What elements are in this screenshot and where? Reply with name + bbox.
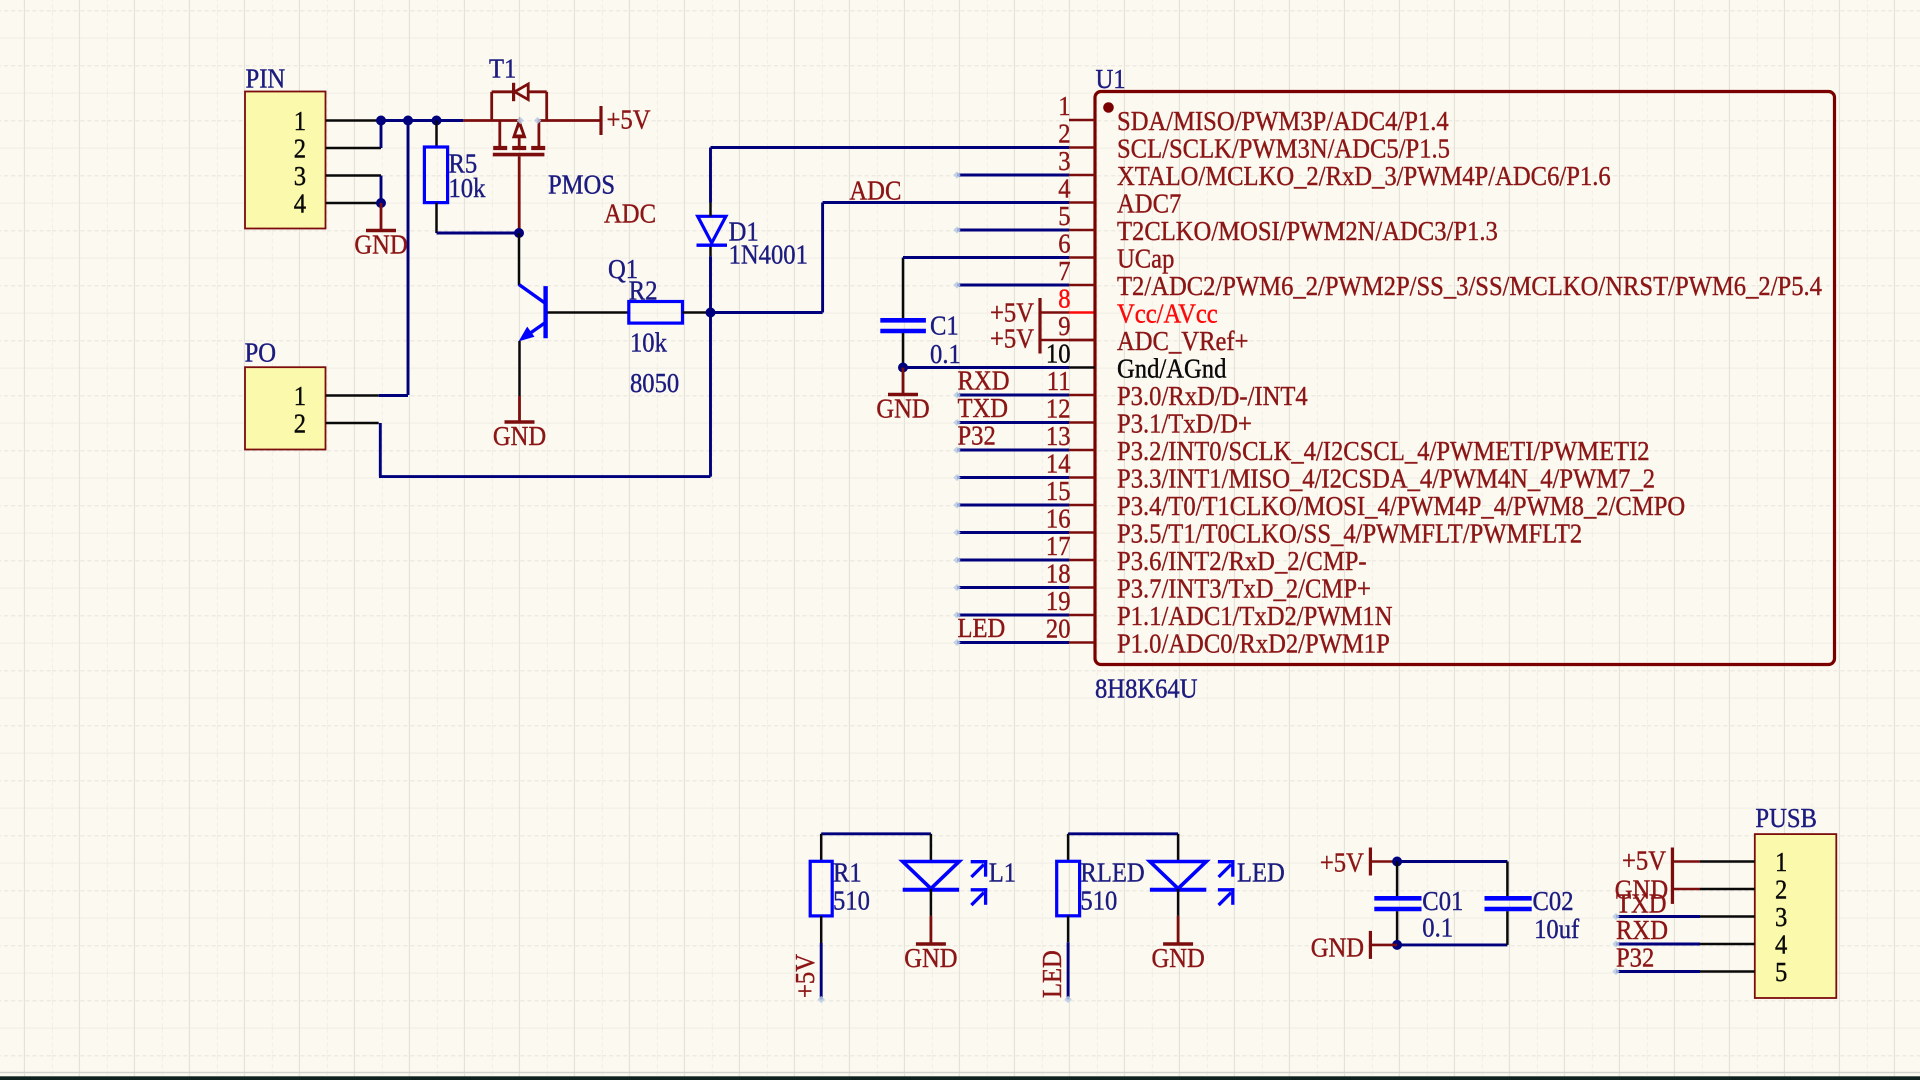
svg-text:PIN: PIN [246,63,286,94]
svg-text:5: 5 [1058,200,1070,231]
svg-text:3: 3 [1058,145,1070,176]
svg-text:P1.0/ADC0/RxD2/PWM1P: P1.0/ADC0/RxD2/PWM1P [1117,628,1390,659]
svg-text:LED: LED [958,612,1006,643]
wire RLED top to LED anode [1068,832,1178,835]
transistor Q1 NPN [519,285,546,342]
svg-text:U1: U1 [1096,63,1126,94]
capacitor C1 [880,320,926,331]
wire ADC to U1 pin 4 [823,201,1069,204]
svg-text:+5V: +5V [1320,847,1364,878]
ground GND at Q1 [493,396,546,451]
D1 pin wire top [709,203,712,217]
svg-text:510: 510 [1080,885,1117,916]
wire P32 to U1 pin 13 [957,449,1069,452]
wire to U1 pin 2 [711,146,1070,149]
svg-text:T1: T1 [489,53,516,84]
svg-text:0.1: 0.1 [930,338,961,369]
U1 pin 20 P1.0/ADC0/RxD2/PWM1P [1046,613,1390,659]
U1 pin1 marker dot [1103,102,1114,113]
ground GND at L1 [904,916,957,973]
wire C01 bottom to C02 bottom [1397,943,1507,946]
svg-text:ADC7: ADC7 [1117,188,1181,219]
power +5V at C01 [1320,847,1397,878]
wire C01 top to C02 top [1397,860,1507,863]
junction PIN1/PO1 node [403,116,413,126]
U1 pin 17 P3.6/INT2/RxD_2/CMP- [1046,530,1367,576]
connector PO [245,367,326,449]
svg-text:GND: GND [904,942,957,973]
wire stub to U1 pin 17 [957,559,1069,562]
LED LED [1150,860,1235,905]
junction PIN1 node [376,116,386,126]
svg-text:1N4001: 1N4001 [729,239,808,270]
svg-text:8H8K64U: 8H8K64U [1095,673,1198,704]
U1 pin 6 UCap [1058,228,1174,274]
svg-text:3: 3 [1775,901,1787,932]
wire TXD to U1 pin 12 [957,421,1069,424]
svg-text:14: 14 [1046,448,1071,479]
svg-text:18: 18 [1046,558,1071,589]
wire C1 to U1 pin 6 UCap [903,256,1069,259]
svg-text:2: 2 [1775,874,1787,905]
Q1 base pin wire [548,311,630,314]
svg-text:P3.4/T0/T1CLKO/MOSI_4/PWM4P_4/: P3.4/T0/T1CLKO/MOSI_4/PWM4P_4/PWM8_2/CMP… [1117,490,1685,521]
svg-text:510: 510 [833,885,870,916]
PUSB pin 4 [1700,929,1788,960]
wire end marker [953,171,960,178]
PIN pin 3 [294,160,381,191]
junction C1 / GND / pin10 [898,363,908,373]
svg-text:LED: LED [1237,857,1285,888]
wire RXD to U1 pin 11 [957,394,1069,397]
svg-text:GND: GND [1311,932,1364,963]
svg-text:P3.3/INT1/MISO_4/I2CSDA_4/PWM4: P3.3/INT1/MISO_4/I2CSDA_4/PWM4N_4/PWM7_2 [1117,463,1655,494]
LED pin wire top [1177,834,1180,862]
diode D1 [697,216,728,245]
wire end marker [953,446,960,453]
svg-text:4: 4 [1775,929,1788,960]
ground GND port at C01 [1311,931,1397,963]
svg-text:1: 1 [1775,846,1787,877]
wire stub to U1 pin 16 [957,531,1069,534]
svg-text:PMOS: PMOS [548,169,615,200]
svg-text:4: 4 [1058,173,1071,204]
svg-text:RXD: RXD [958,365,1010,396]
svg-text:9: 9 [1058,310,1070,341]
svg-text:3: 3 [294,160,306,191]
wire node down [709,313,712,477]
svg-text:P3.7/INT3/TxD_2/CMP+: P3.7/INT3/TxD_2/CMP+ [1117,573,1371,604]
wire RLED to LED net [1067,942,1070,999]
wire R5 to T1 drain node [437,232,520,235]
wire stub to U1 pin 5 [957,229,1069,232]
junction R2 / D1 / PO2 node [706,308,716,318]
svg-text:1: 1 [1058,90,1070,121]
svg-text:SDA/MISO/PWM3P/ADC4/P1.4: SDA/MISO/PWM3P/ADC4/P1.4 [1117,105,1449,136]
wire end marker [953,639,960,646]
wire across to PO2 [379,475,711,478]
svg-text:10k: 10k [630,327,667,358]
svg-text:10: 10 [1046,338,1071,369]
ground GND at PIN4 [354,203,407,260]
R5 pin wire top [435,121,438,148]
svg-text:SCL/SCLK/PWM3N/ADC5/P1.5: SCL/SCLK/PWM3N/ADC5/P1.5 [1117,133,1450,164]
C02 pin wire top [1506,862,1509,897]
svg-text:8050: 8050 [630,367,679,398]
svg-text:T2/ADC2/PWM6_2/PWM2P/SS_3/SS/M: T2/ADC2/PWM6_2/PWM2P/SS_3/SS/MCLKO/NRST/… [1117,270,1822,301]
junction +5V / C01 top [1392,857,1402,867]
PUSB pin 2 [1700,874,1787,905]
PO pin 1 [294,380,379,411]
wire D1 cathode down to node [709,256,712,312]
wire end marker [953,501,960,508]
wire R1 top to L1 anode [821,832,931,835]
wire stub to U1 pin 15 [957,504,1069,507]
wire TXD to PUSB pin 3 [1616,915,1700,918]
U1 pin 3 XTALO/MCLKO_2/RxD_3/PWM4P/ADC6/P1.6 [1058,145,1611,191]
R5 pin wire bottom [435,203,438,233]
wire RXD to PUSB pin 4 [1616,943,1700,946]
svg-text:2: 2 [1058,118,1070,149]
resistor R5 [424,147,447,203]
svg-text:Vcc/AVcc: Vcc/AVcc [1117,298,1218,329]
svg-text:R1: R1 [833,857,862,888]
U1 pin 13 P3.2/INT0/SCLK_4/I2CSCL_4/PWMETI/PWMETI2 [1046,420,1650,466]
svg-text:11: 11 [1047,365,1071,396]
svg-text:19: 19 [1046,585,1071,616]
U1 pin 18 P3.7/INT3/TxD_2/CMP+ [1046,558,1371,604]
svg-text:LED: LED [1036,950,1067,998]
wire end marker [953,391,960,398]
C01 pin wire bottom [1396,911,1399,945]
wire stub to U1 pin 14 [957,476,1069,479]
wire stub to U1 pin 3 [957,174,1069,177]
wire end marker [953,529,960,536]
wire PO1 to riser [379,394,408,397]
svg-text:P3.5/T1/T0CLKO/SS_4/PWMFLT/PWM: P3.5/T1/T0CLKO/SS_4/PWMFLT/PWMFLT2 [1117,518,1582,549]
wire end marker [953,556,960,563]
transistor T1 PMOS [463,83,601,232]
svg-text:8: 8 [1058,283,1070,314]
U1 pin 10 Gnd/AGnd [1046,338,1227,384]
svg-text:P1.1/ADC1/TxD2/PWM1N: P1.1/ADC1/TxD2/PWM1N [1117,600,1393,631]
power +5V at T1 [601,104,651,136]
capacitor C02 [1485,898,1532,909]
wire end marker [818,996,825,1003]
wire end marker [1612,940,1619,947]
svg-text:+5V: +5V [990,323,1034,354]
wire +5V red stub to pin 8 [1069,311,1095,314]
R1 pin wire top [820,834,823,862]
svg-text:13: 13 [1046,420,1071,451]
Q1 collector pin wire [518,233,521,286]
R2 pin wire right [683,311,711,314]
svg-text:P3.0/RxD/D-/INT4: P3.0/RxD/D-/INT4 [1117,380,1308,411]
svg-text:12: 12 [1046,393,1071,424]
svg-text:20: 20 [1046,613,1071,644]
svg-text:P3.6/INT2/RxD_2/CMP-: P3.6/INT2/RxD_2/CMP- [1117,545,1367,576]
LED pin wire bottom [1177,889,1180,916]
svg-text:GND: GND [493,420,546,451]
U1 pin 15 P3.4/T0/T1CLKO/MOSI_4/PWM4P_4/PWM8_2/CMPO [1046,475,1685,521]
wire end marker [953,419,960,426]
RLED pin wire top [1067,834,1070,862]
wire end marker [517,117,524,124]
junction PIN4 gnd node [376,198,386,208]
svg-text:0.1: 0.1 [1422,912,1453,943]
svg-text:GND: GND [876,393,929,424]
svg-text:PO: PO [245,337,277,368]
PUSB pin 3 [1700,901,1787,932]
PUSB pin 1 [1700,846,1787,877]
U1 pin 8 Vcc/AVcc [1058,283,1218,329]
svg-text:PUSB: PUSB [1755,802,1817,833]
svg-text:7: 7 [1058,255,1070,286]
svg-text:GND: GND [1151,942,1204,973]
connector PIN [245,92,326,229]
wire stub to U1 pin 18 [957,586,1069,589]
svg-text:RLED: RLED [1080,857,1144,888]
junction T1 drain / Q1 collector [514,228,524,238]
svg-text:P3.2/INT0/SCLK_4/I2CSCL_4/PWME: P3.2/INT0/SCLK_4/I2CSCL_4/PWMETI/PWMETI2 [1117,435,1650,466]
svg-text:TXD: TXD [958,392,1009,423]
junction GND / C01 bottom [1392,940,1402,950]
svg-text:Gnd/AGnd: Gnd/AGnd [1117,353,1227,384]
power +5V at PUSB pin 1 [1622,845,1700,876]
C1 pin wire bottom [902,333,905,368]
C01 pin wire top [1396,862,1399,897]
svg-text:+5V: +5V [1622,845,1666,876]
U1 pin 19 P1.1/ADC1/TxD2/PWM1N [1046,585,1393,631]
svg-text:10k: 10k [449,172,486,203]
wire PIN node down to PO1 [407,121,410,396]
U1 pin 4 ADC7 [1058,173,1181,219]
svg-text:RXD: RXD [1616,914,1668,945]
U1 pin 16 P3.5/T1/T0CLKO/SS_4/PWMFLT/PWMFLT2 [1046,503,1582,549]
wire end marker [1612,968,1619,975]
svg-text:ADC: ADC [604,198,656,229]
svg-text:+5V: +5V [789,954,820,998]
svg-text:1: 1 [294,380,306,411]
wire D1 to U1 pin2 row [709,148,712,203]
svg-text:15: 15 [1046,475,1071,506]
connector PUSB [1755,834,1837,998]
svg-text:4: 4 [294,188,307,219]
Q1 emitter pin wire [518,341,521,396]
U1 pin 11 P3.0/RxD/D-/INT4 [1047,365,1308,411]
ground GND port at PUSB pin 2 [1615,874,1700,905]
wire end marker [1612,913,1619,920]
PO pin 2 [294,408,379,439]
RLED pin wire bottom [1067,916,1070,942]
svg-text:L1: L1 [989,857,1016,888]
LED L1 [903,860,988,905]
bottom edge light line [0,1072,1920,1073]
svg-text:GND: GND [354,229,407,260]
wire P32 to PUSB pin 5 [1616,970,1700,973]
wire end marker [953,611,960,618]
resistor R2 [629,302,683,324]
L1 pin wire bottom [930,889,933,916]
svg-text:C02: C02 [1533,885,1574,916]
svg-text:UCap: UCap [1117,243,1174,274]
ground GND at LED [1151,916,1204,973]
resistor R1 [810,861,832,916]
svg-text:P3.1/TxD/D+: P3.1/TxD/D+ [1117,408,1252,439]
D1 pin wire bottom [709,246,712,257]
wire PIN1 node to T1 drain [380,119,463,122]
wire stub to U1 pin 7 [957,284,1069,287]
wire end marker [953,226,960,233]
svg-text:16: 16 [1046,503,1071,534]
wire node to ADC riser [711,311,823,314]
svg-text:+5V: +5V [607,104,651,135]
R1 pin wire bottom [820,916,823,943]
power +5V bracket to U1 pins 8 and 9 [990,297,1095,354]
svg-text:6: 6 [1058,228,1070,259]
svg-text:2: 2 [294,133,306,164]
wire end marker [953,584,960,591]
svg-text:R2: R2 [629,275,658,306]
junction R5 top node [432,116,442,126]
svg-text:XTALO/MCLKO_2/RxD_3/PWM4P/ADC6: XTALO/MCLKO_2/RxD_3/PWM4P/ADC6/P1.6 [1117,160,1611,191]
wire stub to U1 pin 19 [957,614,1069,617]
svg-text:ADC: ADC [849,175,901,206]
svg-text:P32: P32 [958,420,996,451]
IC U1 8H8K64U [1095,92,1835,665]
wire end marker [534,117,541,124]
svg-text:17: 17 [1046,530,1071,561]
PIN pin 4 [294,188,381,219]
U1 pin 7 T2/ADC2/PWM6_2/PWM2P/SS_3/SS/MCLKO/NRST/PWM6_2/P5.4 [1058,255,1822,301]
U1 pin 12 P3.1/TxD/D+ [1046,393,1252,439]
U1 pin 14 P3.3/INT1/MISO_4/I2CSDA_4/PWM4N_4/PWM7_2 [1046,448,1655,494]
svg-text:T2CLKO/MOSI/PWM2N/ADC3/P1.3: T2CLKO/MOSI/PWM2N/ADC3/P1.3 [1117,215,1498,246]
U1 pin 9 ADC_VRef+ [1058,310,1248,356]
svg-text:C1: C1 [930,310,959,341]
U1 pin 2 SCL/SCLK/PWM3N/ADC5/P1.5 [1058,118,1450,164]
wire LED to U1 pin 20 [957,641,1069,644]
svg-text:ADC_VRef+: ADC_VRef+ [1117,325,1249,356]
L1 pin wire top [930,834,933,862]
wire PIN3 to PIN4 [380,176,383,204]
PIN pin 1 [294,105,381,136]
wire end marker [953,281,960,288]
bottom edge dark band [0,1076,1920,1080]
wire end marker [1064,996,1071,1003]
resistor RLED [1057,861,1080,916]
PUSB pin 5 [1700,956,1787,987]
U1 pin 1 SDA/MISO/PWM3P/ADC4/P1.4 [1058,90,1449,136]
svg-text:2: 2 [294,408,306,439]
wire ADC riser [821,203,824,313]
ground GND at C1 [876,368,929,424]
C1 pin wire top [902,258,905,319]
wire PIN1 to PIN2 [380,121,383,149]
wire end marker [953,474,960,481]
svg-text:10uf: 10uf [1534,913,1580,944]
svg-text:1: 1 [294,105,306,136]
svg-text:5: 5 [1775,956,1787,987]
C02 pin wire bottom [1506,911,1509,945]
U1 pin 5 T2CLKO/MOSI/PWM2N/ADC3/P1.3 [1058,200,1498,246]
wire PO2 riser [379,423,382,477]
capacitor C01 [1374,898,1421,909]
wire C1 node to U1 pin 10 [903,366,1069,369]
PIN pin 2 [294,133,381,164]
wire R1 to +5V [820,943,823,1000]
svg-text:P32: P32 [1616,942,1654,973]
